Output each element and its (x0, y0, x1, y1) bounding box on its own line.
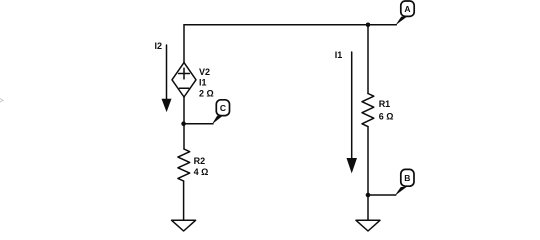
svg-text:6 Ω: 6 Ω (379, 111, 394, 121)
svg-text:4 Ω: 4 Ω (194, 167, 209, 177)
svg-text:I2: I2 (155, 41, 163, 51)
svg-text:V2: V2 (199, 67, 210, 77)
svg-text:I1: I1 (199, 78, 207, 88)
svg-text:A: A (404, 4, 410, 14)
svg-text:B: B (404, 173, 410, 183)
svg-text:I1: I1 (335, 50, 343, 60)
svg-text:R1: R1 (379, 99, 391, 109)
svg-text:2 Ω: 2 Ω (199, 89, 214, 99)
svg-text:R2: R2 (194, 156, 206, 166)
svg-text:C: C (220, 103, 226, 113)
